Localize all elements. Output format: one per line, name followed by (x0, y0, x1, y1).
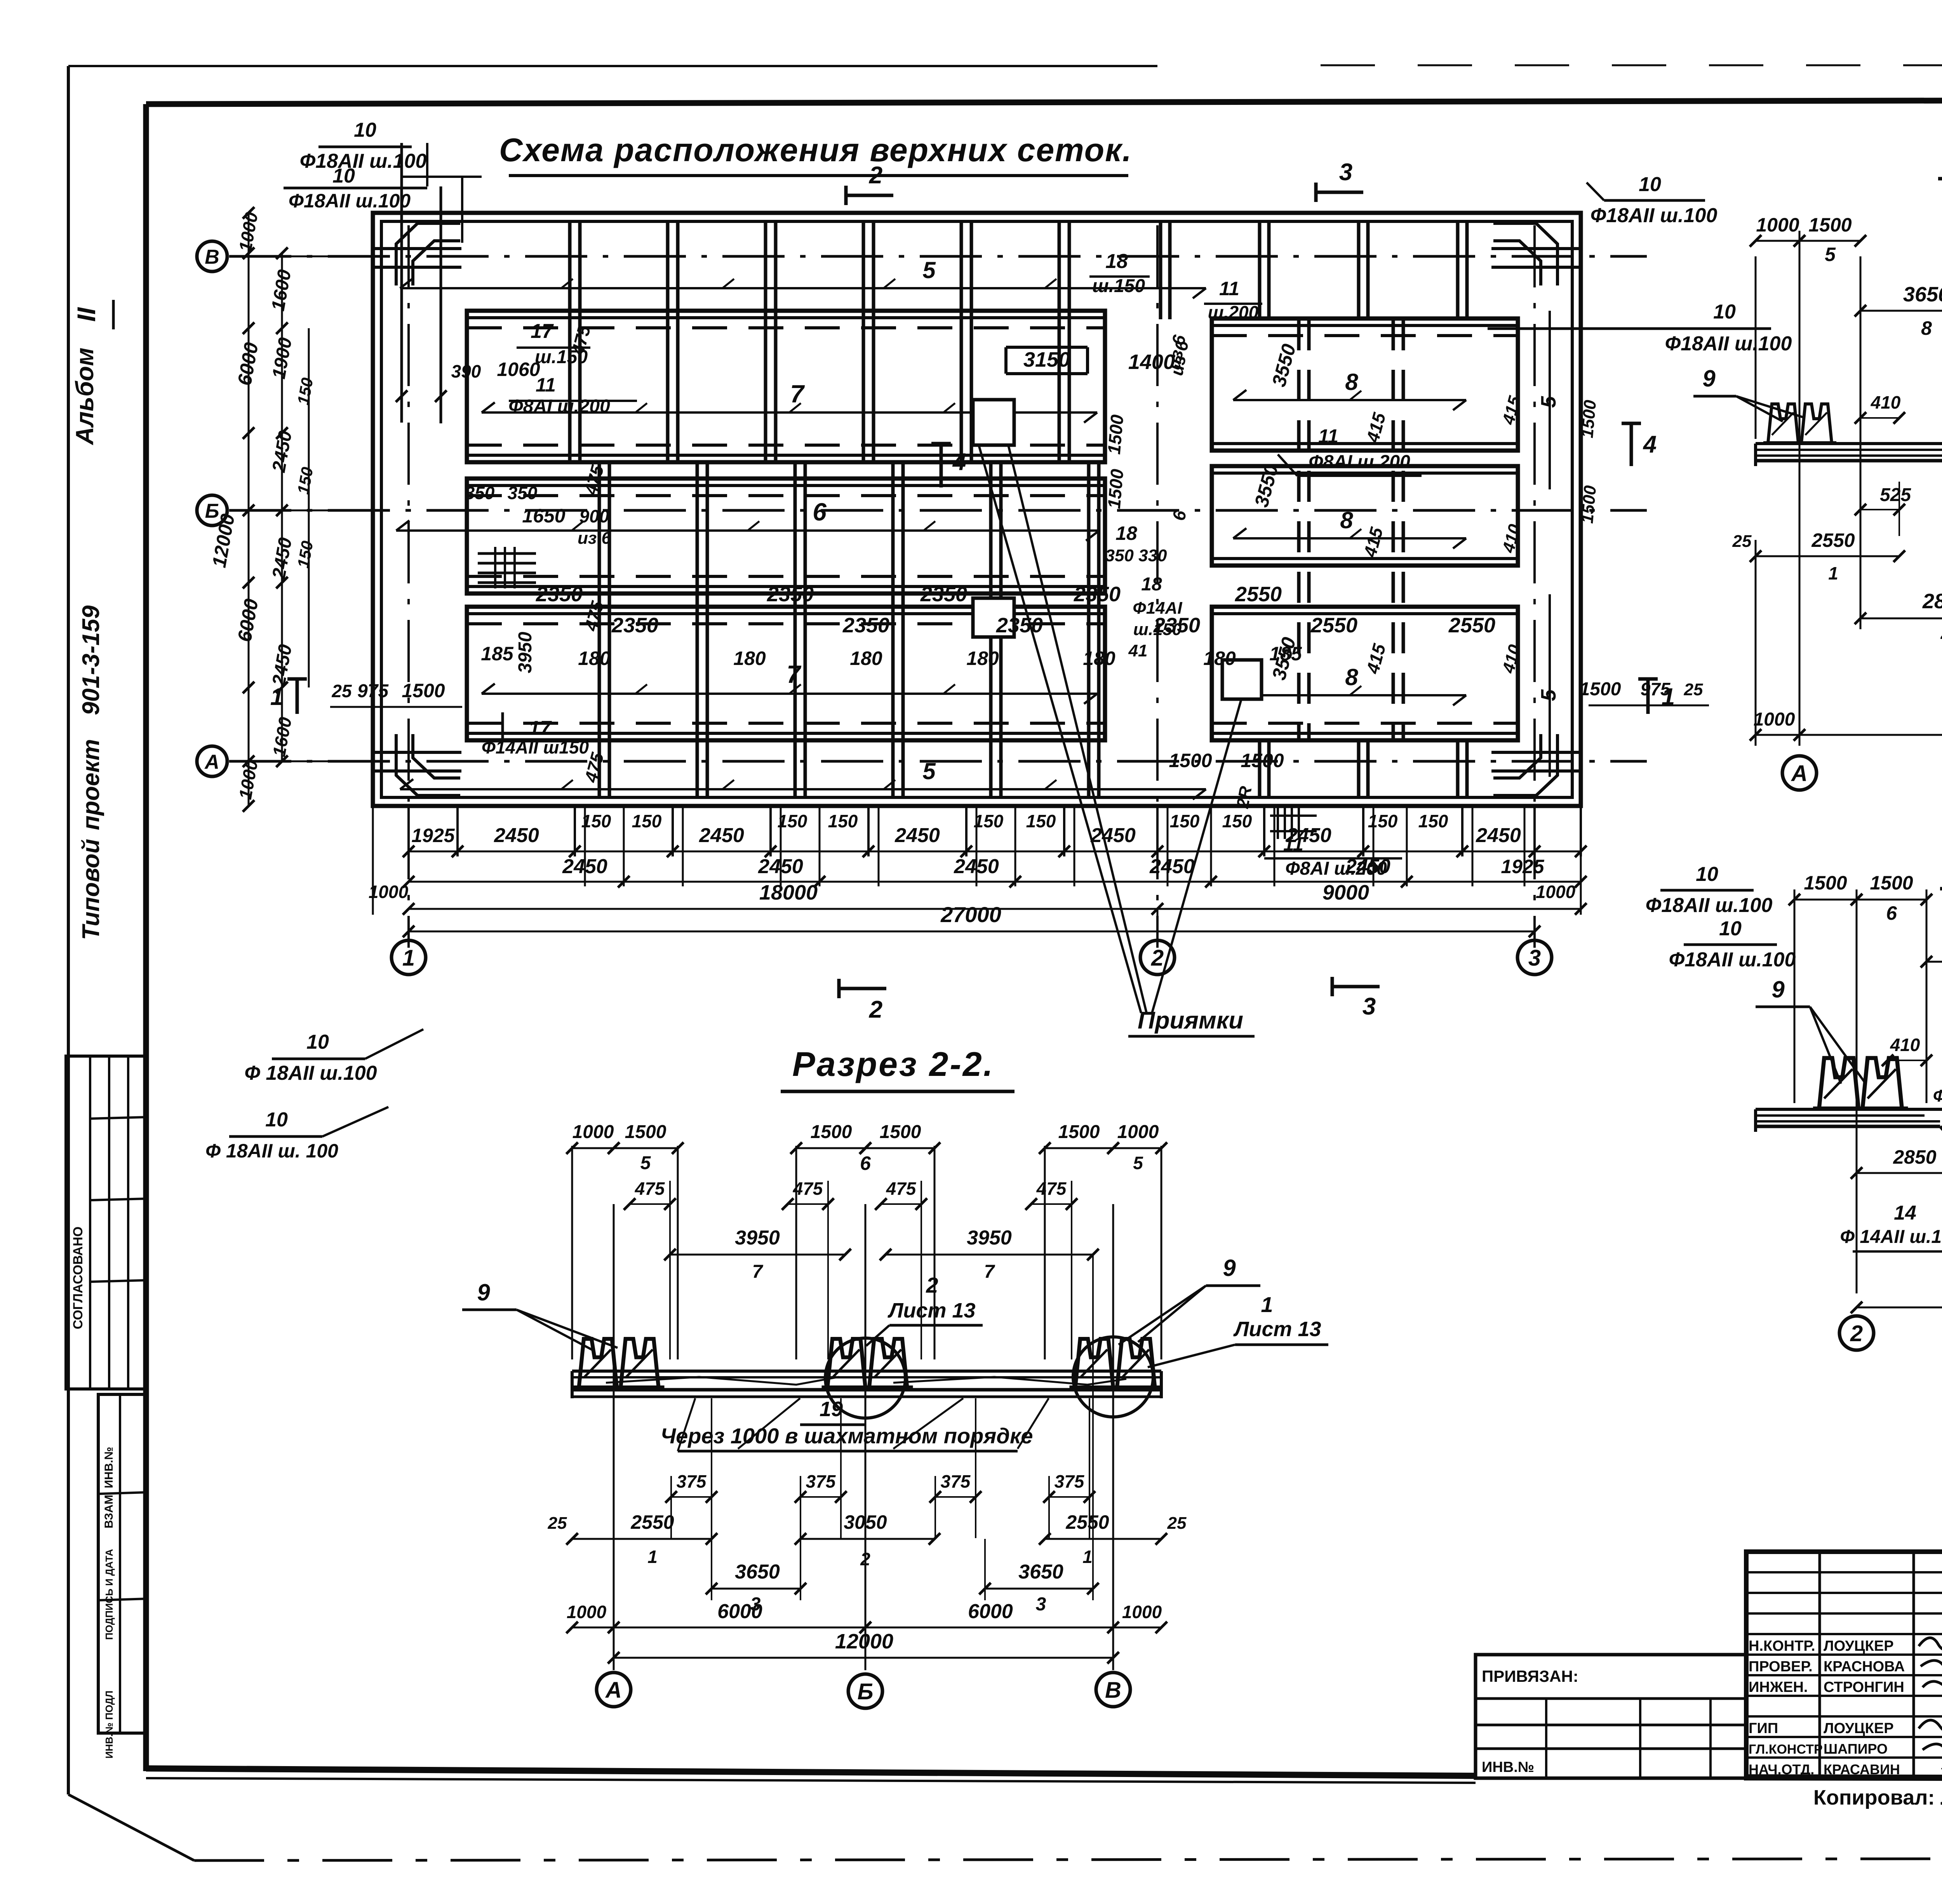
plan corner hooks bottom-right (1493, 734, 1557, 795)
svg-text:350: 350 (465, 483, 495, 503)
svg-text:Б: Б (857, 1679, 873, 1704)
svg-text:НАЧ.ОТД.: НАЧ.ОТД. (1749, 1761, 1814, 1777)
mesh band 6 middle (467, 479, 1105, 593)
svg-text:Ф 18АII ш.100: Ф 18АII ш.100 (244, 1062, 377, 1084)
svg-text:25: 25 (1732, 532, 1752, 551)
svg-text:из 6: из 6 (578, 529, 611, 548)
svg-text:150: 150 (581, 811, 611, 831)
section 2-2 right support (1070, 1339, 1161, 1387)
svg-text:1: 1 (1828, 563, 1838, 583)
svg-text:17: 17 (529, 717, 552, 740)
section 3-3 dim 2850 (1860, 618, 1942, 620)
svg-text:2450: 2450 (1286, 824, 1331, 847)
svg-text:ИНВ.№: ИНВ.№ (1482, 1759, 1534, 1775)
svg-text:3: 3 (1363, 993, 1376, 1020)
svg-text:5: 5 (922, 758, 936, 784)
section 2-2 dim 6000 row (614, 1627, 865, 1629)
svg-text:2: 2 (869, 996, 882, 1023)
svg-text:1500: 1500 (1104, 468, 1128, 510)
mesh 5 vertical right bottom (1549, 594, 1551, 777)
svg-text:410: 410 (1499, 642, 1525, 675)
svg-text:3: 3 (1528, 945, 1541, 971)
svg-text:1500: 1500 (1804, 872, 1847, 894)
svg-text:3950: 3950 (735, 1227, 780, 1249)
svg-text:6: 6 (1886, 902, 1897, 924)
svg-text:7: 7 (984, 1262, 995, 1282)
svg-text:5: 5 (1537, 396, 1560, 408)
svg-text:1500: 1500 (1058, 1122, 1100, 1142)
svg-text:4: 4 (1643, 431, 1657, 458)
svg-text:3650: 3650 (1903, 283, 1942, 306)
section mark 2 bottom (837, 979, 841, 998)
svg-text:2350: 2350 (1074, 583, 1121, 606)
dimension line row 3 (409, 908, 1581, 910)
mesh band 8 bottom right (1212, 607, 1518, 740)
svg-text:2: 2 (860, 1549, 870, 1569)
svg-text:1000: 1000 (1756, 214, 1799, 236)
svg-text:180: 180 (850, 647, 882, 669)
sidebar table inventory strip (98, 1394, 147, 1733)
svg-text:1600: 1600 (269, 715, 296, 758)
svg-text:975: 975 (357, 681, 389, 701)
section 3-3 bottom dim 12000 (1799, 734, 1942, 736)
svg-text:9: 9 (1223, 1255, 1236, 1281)
dimension extension verticals below plan (407, 807, 410, 856)
sidebar table SOGLASOVANO (66, 1056, 147, 1389)
svg-text:1000: 1000 (567, 1602, 607, 1622)
svg-text:1500: 1500 (402, 680, 445, 701)
page outer border (68, 65, 1157, 67)
svg-text:18: 18 (1105, 250, 1128, 273)
svg-text:Приямки: Приямки (1138, 1007, 1243, 1034)
svg-text:9000: 9000 (1323, 881, 1369, 904)
column joint double lines lower set (598, 462, 601, 797)
svg-text:41: 41 (1128, 641, 1148, 660)
svg-text:А: А (204, 751, 219, 773)
svg-text:Ф14АII ш.100: Ф14АII ш.100 (1933, 1086, 1942, 1105)
svg-text:1: 1 (647, 1547, 658, 1567)
svg-text:2: 2 (926, 1273, 938, 1297)
svg-text:410: 410 (1499, 522, 1525, 555)
svg-text:10: 10 (1719, 917, 1742, 940)
svg-text:10: 10 (306, 1031, 329, 1053)
svg-text:1500: 1500 (1808, 214, 1852, 236)
svg-text:475: 475 (793, 1178, 823, 1199)
svg-text:4: 4 (1940, 625, 1942, 646)
svg-text:25: 25 (331, 681, 352, 701)
svg-text:1000: 1000 (1122, 1602, 1162, 1622)
svg-text:150: 150 (294, 376, 316, 406)
mesh 7 line bottom (482, 693, 1097, 695)
svg-text:14: 14 (1894, 1202, 1916, 1224)
svg-text:415: 415 (1359, 525, 1387, 560)
svg-text:Ф 14АII ш.100: Ф 14АII ш.100 (1840, 1227, 1942, 1247)
svg-text:2450: 2450 (268, 429, 296, 474)
svg-text:375: 375 (1055, 1471, 1085, 1492)
svg-text:II: II (72, 307, 101, 322)
mesh band 7 bottom (467, 607, 1105, 740)
svg-text:10: 10 (1713, 301, 1736, 323)
svg-text:1: 1 (402, 945, 415, 971)
svg-text:ГИП: ГИП (1749, 1720, 1778, 1737)
mesh band 8 top right (1212, 318, 1518, 451)
svg-text:ПРИВЯЗАН:: ПРИВЯЗАН: (1482, 1667, 1578, 1685)
svg-text:475: 475 (635, 1178, 665, 1199)
svg-text:180: 180 (1083, 647, 1115, 669)
section mark 3 bottom (1331, 977, 1334, 996)
section mark 4 right (1622, 422, 1641, 425)
svg-text:ИНВ.№ ПОДЛ: ИНВ.№ ПОДЛ (103, 1690, 115, 1758)
svg-text:3: 3 (1339, 159, 1352, 186)
svg-text:1925: 1925 (411, 825, 455, 846)
svg-text:2550: 2550 (630, 1511, 674, 1533)
svg-text:1500: 1500 (1580, 679, 1621, 700)
svg-text:475: 475 (886, 1178, 917, 1199)
svg-text:9: 9 (477, 1279, 490, 1305)
svg-text:150: 150 (828, 811, 858, 831)
section 2-2 top dims (572, 1147, 614, 1149)
svg-text:1600: 1600 (268, 268, 295, 313)
mesh 5 vertical right top (1549, 311, 1551, 489)
svg-text:Копировал: Логинова: Копировал: Логинова (1813, 1786, 1942, 1809)
svg-text:2450: 2450 (1476, 824, 1521, 847)
svg-text:Ф18АII ш.100: Ф18АII ш.100 (1669, 949, 1796, 971)
mesh band 7 top (467, 311, 1105, 462)
section 2-2 dims 3950 (670, 1254, 845, 1256)
svg-text:ш.150: ш.150 (1092, 276, 1145, 296)
section 2-2 axis circle B (848, 1674, 882, 1708)
section 2-2 dim 12000 (614, 1657, 1113, 1659)
svg-text:1900: 1900 (268, 336, 296, 381)
svg-text:415: 415 (1362, 410, 1390, 445)
svg-text:150: 150 (632, 811, 662, 831)
plan left dimension lines (248, 213, 250, 806)
svg-text:19: 19 (820, 1398, 843, 1421)
svg-text:3050: 3050 (844, 1511, 887, 1533)
svg-text:2450: 2450 (758, 855, 803, 878)
svg-text:1925: 1925 (1501, 856, 1544, 877)
title block signatures squiggles (1919, 1638, 1942, 1687)
svg-text:11: 11 (1219, 278, 1239, 299)
svg-text:2550: 2550 (1448, 614, 1495, 637)
svg-text:2850: 2850 (1922, 590, 1942, 613)
svg-text:2550: 2550 (1065, 1511, 1109, 1533)
svg-text:185: 185 (481, 643, 514, 665)
svg-text:1: 1 (1261, 1292, 1273, 1317)
svg-text:1500: 1500 (1104, 414, 1128, 455)
section 3-3 slab (1756, 442, 1942, 445)
svg-text:1000: 1000 (235, 211, 262, 253)
section 4-4 dims 2550 (1926, 961, 1942, 963)
svg-text:8: 8 (1345, 369, 1358, 395)
svg-text:Ф18АII ш.100: Ф18АII ш.100 (1646, 894, 1773, 917)
axis circle 2 (1157, 909, 1159, 938)
dimension line row 2 (409, 881, 1581, 883)
svg-text:375: 375 (806, 1471, 836, 1492)
section mark 1 left (287, 677, 307, 681)
svg-text:1500: 1500 (625, 1122, 666, 1142)
svg-text:10: 10 (265, 1109, 288, 1131)
svg-text:180: 180 (578, 647, 611, 669)
svg-text:18: 18 (1115, 522, 1137, 544)
svg-text:901-3-159: 901-3-159 (78, 605, 104, 715)
svg-text:1000: 1000 (1754, 709, 1795, 730)
svg-text:Ф18АII ш.100: Ф18АII ш.100 (1590, 204, 1718, 227)
svg-text:1650: 1650 (522, 505, 565, 527)
svg-text:2550: 2550 (1811, 529, 1855, 551)
section 2-2 slab (572, 1370, 1161, 1373)
svg-text:3650: 3650 (735, 1561, 780, 1583)
svg-text:9: 9 (1771, 976, 1785, 1002)
plan corner hooks bottom-left (396, 734, 460, 795)
svg-text:410: 410 (1871, 392, 1901, 412)
pit leader lines (979, 445, 1141, 1013)
svg-text:5: 5 (1133, 1153, 1143, 1173)
svg-text:7: 7 (790, 380, 805, 408)
svg-text:5: 5 (1537, 689, 1560, 701)
svg-text:Схема расположения верхних сет: Схема расположения верхних сеток. (499, 132, 1132, 168)
section 3-3 left support (1763, 404, 1836, 443)
svg-text:11: 11 (536, 374, 556, 396)
svg-text:2: 2 (1151, 945, 1164, 971)
svg-text:3650: 3650 (1018, 1561, 1063, 1583)
svg-text:150: 150 (778, 811, 807, 831)
svg-text:2450: 2450 (1149, 855, 1195, 878)
svg-text:2350: 2350 (611, 614, 658, 637)
svg-text:25: 25 (1167, 1514, 1187, 1533)
svg-text:27000: 27000 (940, 902, 1001, 927)
section 2-2 middle support (822, 1339, 913, 1387)
svg-text:Типовой: Типовой (78, 839, 104, 940)
axis line V (229, 255, 1647, 258)
svg-text:2450: 2450 (268, 643, 296, 688)
svg-text:ш.200: ш.200 (1208, 302, 1259, 322)
svg-text:ГЛ.КОНСТР: ГЛ.КОНСТР (1749, 1742, 1823, 1757)
svg-text:1500: 1500 (1578, 484, 1600, 524)
axis circle V (197, 241, 227, 272)
svg-text:1060: 1060 (497, 359, 540, 380)
svg-text:КРАСНОВА: КРАСНОВА (1824, 1659, 1905, 1675)
svg-text:ш.150: ш.150 (1133, 620, 1182, 639)
svg-text:В: В (1105, 1678, 1121, 1703)
mesh 8 line top (1233, 399, 1466, 401)
svg-text:ВЗАМ. ИНВ.№: ВЗАМ. ИНВ.№ (103, 1447, 115, 1528)
svg-text:1500: 1500 (1870, 872, 1913, 894)
svg-text:350 330: 350 330 (1105, 546, 1167, 565)
svg-text:475: 475 (580, 463, 608, 498)
pit rectangle 3 (1222, 660, 1262, 699)
svg-text:А: А (605, 1678, 622, 1703)
plan hatch marks bottom middle (1277, 806, 1279, 839)
section 4-4 bottom dims (1857, 1172, 1942, 1174)
svg-text:6: 6 (813, 498, 827, 526)
svg-text:180: 180 (966, 647, 999, 669)
svg-text:1000: 1000 (235, 758, 262, 801)
svg-text:8: 8 (1340, 507, 1353, 533)
title block left extension privyazan (1476, 1655, 1746, 1778)
svg-text:2R: 2R (1233, 785, 1256, 810)
svg-text:2350: 2350 (767, 583, 814, 606)
svg-text:1500: 1500 (811, 1122, 852, 1142)
svg-text:СОГЛАСОВАНО: СОГЛАСОВАНО (71, 1227, 85, 1330)
svg-text:Ф8АI ш.200: Ф8АI ш.200 (508, 396, 610, 417)
svg-text:проект: проект (78, 739, 104, 830)
svg-text:2450: 2450 (1090, 824, 1136, 847)
column joint double lines upper set (568, 222, 572, 462)
svg-text:ПОДПИСЬ И ДАТА: ПОДПИСЬ И ДАТА (103, 1549, 115, 1640)
section 2-2 axis circle A (597, 1673, 631, 1707)
svg-text:5: 5 (922, 257, 936, 283)
section mark 1 right (1638, 677, 1658, 681)
svg-text:ИНЖЕН.: ИНЖЕН. (1749, 1679, 1808, 1695)
axis circle 1 (408, 931, 410, 938)
svg-text:6: 6 (1168, 509, 1190, 522)
svg-text:5: 5 (640, 1153, 651, 1173)
svg-text:8: 8 (1921, 317, 1932, 339)
plan left small hatch stack (478, 552, 536, 555)
svg-text:1000: 1000 (1536, 882, 1576, 902)
svg-text:900: 900 (579, 506, 609, 526)
svg-text:150: 150 (974, 811, 1004, 831)
svg-text:Альбом: Альбом (71, 348, 99, 446)
svg-text:2550: 2550 (1235, 583, 1282, 606)
leader box top-left (400, 143, 403, 423)
svg-text:3550: 3550 (1250, 462, 1282, 509)
svg-text:5: 5 (1825, 244, 1836, 265)
svg-text:6: 6 (860, 1152, 871, 1174)
svg-text:180: 180 (1203, 647, 1236, 669)
section 3-3 axis circle A (1782, 756, 1817, 790)
section 3-3 dim verticals (1755, 256, 1757, 439)
svg-text:1000: 1000 (1117, 1122, 1159, 1142)
drawing frame (146, 99, 1942, 104)
svg-text:2450: 2450 (1345, 855, 1390, 878)
plan corner hooks top-right (1493, 223, 1557, 285)
svg-text:1000: 1000 (369, 882, 409, 902)
svg-text:СТРОНГИН: СТРОНГИН (1824, 1679, 1904, 1695)
section 2-2 detail circle middle (825, 1338, 905, 1418)
section 2-2 left support (573, 1339, 665, 1387)
svg-text:Ф18АII ш.100: Ф18АII ш.100 (300, 150, 427, 172)
column joints right section dashed verticals (1297, 319, 1301, 740)
svg-text:2350: 2350 (842, 614, 889, 637)
svg-text:525: 525 (1880, 485, 1911, 505)
svg-text:Лист 13: Лист 13 (1233, 1317, 1321, 1341)
svg-text:6000: 6000 (717, 1600, 762, 1623)
svg-text:1500: 1500 (1578, 399, 1600, 439)
axis line 3 (1533, 225, 1536, 948)
svg-text:18000: 18000 (759, 881, 818, 904)
svg-text:10: 10 (1696, 863, 1718, 886)
title block left grid (1818, 1552, 1821, 1778)
svg-text:3550: 3550 (1268, 341, 1300, 389)
svg-text:6000: 6000 (968, 1600, 1013, 1623)
axis line A (229, 760, 1647, 763)
svg-text:390: 390 (451, 361, 481, 381)
svg-text:375: 375 (677, 1471, 707, 1492)
svg-text:12000: 12000 (835, 1630, 893, 1653)
svg-text:975: 975 (1641, 679, 1671, 699)
svg-text:2450: 2450 (562, 855, 607, 878)
svg-text:2350: 2350 (920, 583, 967, 606)
svg-text:Разрез 2-2.: Разрез 2-2. (792, 1045, 994, 1083)
svg-text:6000: 6000 (233, 597, 262, 643)
svg-text:В: В (205, 246, 219, 268)
section 4-4 dim verticals (1856, 889, 1858, 1293)
section mark 3 top (1314, 183, 1318, 202)
svg-text:1500: 1500 (880, 1122, 921, 1142)
svg-text:11: 11 (1318, 425, 1338, 447)
axis line B (229, 509, 1647, 512)
axis line 2 (1156, 225, 1159, 948)
svg-text:Ф 18АII ш. 100: Ф 18АII ш. 100 (205, 1140, 338, 1162)
svg-text:2450: 2450 (954, 855, 999, 878)
svg-text:7: 7 (787, 660, 802, 688)
svg-text:10: 10 (354, 119, 376, 141)
svg-text:1500: 1500 (1169, 750, 1212, 771)
dimension line row 4 (409, 931, 1535, 933)
svg-text:КРАСАВИН: КРАСАВИН (1824, 1761, 1900, 1777)
svg-text:150: 150 (294, 466, 316, 496)
svg-text:2450: 2450 (699, 824, 744, 847)
section 4-4 dim 9000 (1857, 1307, 1942, 1309)
svg-text:150: 150 (1222, 811, 1252, 831)
svg-text:6000: 6000 (233, 341, 262, 387)
svg-text:1500: 1500 (1241, 750, 1284, 771)
title block outer (1746, 1552, 1942, 1778)
pit rectangle 1 (973, 400, 1014, 445)
svg-text:2: 2 (1850, 1321, 1863, 1346)
svg-text:ПРОВЕР.: ПРОВЕР. (1749, 1659, 1813, 1675)
svg-text:9: 9 (1702, 365, 1716, 392)
svg-text:3950: 3950 (967, 1227, 1012, 1249)
svg-text:ЛОУЦКЕР: ЛОУЦКЕР (1824, 1638, 1894, 1654)
dimension line row 1 (409, 851, 1581, 853)
plan outer slab edge (373, 213, 1581, 806)
section 4-4 slab (1756, 1108, 1942, 1111)
svg-text:3: 3 (1036, 1594, 1046, 1615)
section 2-2 dim verticals (613, 1204, 615, 1670)
pit rectangle 2 (973, 598, 1014, 637)
svg-text:2450: 2450 (494, 824, 539, 847)
svg-text:А: А (1791, 761, 1808, 786)
svg-text:150: 150 (1368, 811, 1398, 831)
svg-text:150: 150 (1170, 811, 1200, 831)
svg-text:475: 475 (1036, 1178, 1067, 1199)
axis circle B (197, 495, 227, 526)
plan corner hooks top-left (396, 223, 460, 285)
section 2-2 dims 3650 (712, 1588, 800, 1590)
svg-text:Ф8АI ш.200: Ф8АI ш.200 (1309, 452, 1410, 472)
svg-text:2350: 2350 (536, 583, 583, 606)
mesh 8 line middle (1233, 537, 1466, 540)
svg-text:2350: 2350 (996, 614, 1043, 637)
section 2-2 detail circle right (1073, 1337, 1153, 1417)
mesh 6 line (396, 529, 1099, 532)
svg-text:415: 415 (1362, 641, 1390, 676)
mesh 8 line bottom (1233, 694, 1466, 696)
svg-text:415: 415 (1499, 394, 1525, 427)
svg-text:1000: 1000 (573, 1122, 614, 1142)
section 4-4 left support (1813, 1058, 1908, 1109)
svg-text:8: 8 (1345, 664, 1358, 690)
svg-text:350: 350 (508, 483, 538, 503)
svg-text:3150: 3150 (1023, 348, 1070, 371)
mesh 5 line top (400, 287, 1206, 289)
section 2-2 wavy mesh lines (606, 1377, 839, 1385)
section 3-3 dim 3650 left (1860, 310, 1942, 312)
svg-text:Ф18АII ш.100: Ф18АII ш.100 (289, 190, 411, 212)
